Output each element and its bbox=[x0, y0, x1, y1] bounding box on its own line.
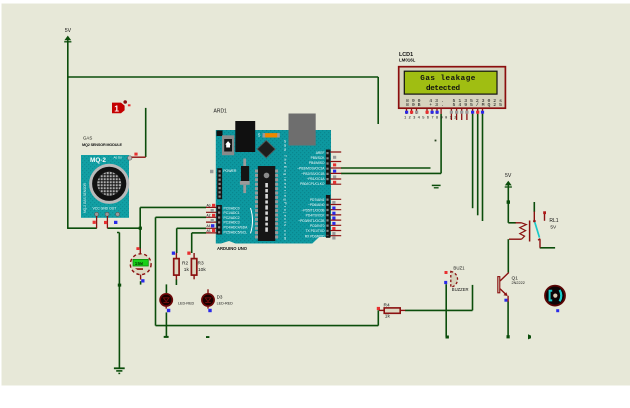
sensor mesh disk bbox=[97, 172, 121, 196]
coil bottom pin dark red bbox=[509, 238, 522, 240]
wire arduino pin dangling horizontal bbox=[341, 167, 431, 169]
wire arduino D pin to LCD E: horizontal bbox=[341, 172, 441, 174]
svg-text:15W: 15W bbox=[135, 261, 144, 267]
common pin stub bbox=[533, 212, 535, 221]
wire lamp bottom dangling stub bbox=[140, 281, 142, 284]
red pin marker above lamp bbox=[136, 247, 139, 250]
mini ground under LCD bbox=[432, 185, 441, 187]
wire vertical up to R4 left pin bbox=[377, 310, 379, 325]
svg-text:ARD1: ARD1 bbox=[214, 108, 228, 114]
sounder semicircle body bbox=[451, 271, 458, 287]
svg-text:MQ-2: MQ-2 bbox=[90, 157, 106, 164]
logic probe showing 1 bbox=[112, 100, 131, 113]
wire relay armature top stub bbox=[533, 202, 535, 212]
right header bottom bbox=[326, 195, 330, 238]
lamp body bbox=[130, 254, 151, 275]
svg-text:~PB2/SS/OC1B: ~PB2/SS/OC1B bbox=[301, 172, 325, 176]
svg-text:~PB3/MOSI/OC2A: ~PB3/MOSI/OC2A bbox=[297, 166, 325, 170]
power terminal 5V (relay side) bbox=[505, 173, 512, 189]
crystal diamond bbox=[257, 140, 275, 157]
wire net A4: vertical down to R2 bbox=[176, 228, 178, 253]
wire net A4: horizontal from arduino pin bbox=[177, 227, 206, 229]
wire LED1 anode stub bbox=[165, 284, 167, 293]
analog header bbox=[216, 205, 222, 235]
svg-text:PB4/MISO: PB4/MISO bbox=[309, 161, 325, 165]
arduino right pin stubs bbox=[330, 152, 341, 240]
wire net A5: vertical down to R3 bbox=[191, 233, 193, 253]
svg-text:BUZZER: BUZZER bbox=[452, 287, 469, 292]
base bar bbox=[498, 277, 500, 293]
svg-text:LED-RED: LED-RED bbox=[178, 302, 195, 306]
wire logic probe net vertical bbox=[145, 108, 147, 157]
svg-text:A2: A2 bbox=[207, 214, 211, 218]
reset button bbox=[217, 131, 223, 137]
svg-text:R4: R4 bbox=[384, 302, 390, 308]
svg-text:Gas leakage: Gas leakage bbox=[420, 75, 475, 83]
wire relay NO contact out bbox=[540, 247, 555, 249]
svg-text:RL1: RL1 bbox=[549, 218, 558, 224]
pin state squares bbox=[93, 221, 96, 224]
svg-text:PD4/T0/XCK: PD4/T0/XCK bbox=[306, 214, 326, 218]
wire from pad to probe net (dark red) bbox=[132, 156, 146, 158]
svg-text:~PD6/AIN0: ~PD6/AIN0 bbox=[308, 203, 325, 207]
svg-text:LM016L: LM016L bbox=[399, 58, 416, 63]
wire vertical dangling above R4 net bbox=[472, 285, 474, 311]
pin state squares bbox=[405, 111, 408, 114]
relay core bar bbox=[529, 221, 531, 242]
wire 5V to relay coil top bbox=[508, 222, 516, 224]
svg-text:www.TheEngineeringProjects.com: www.TheEngineeringProjects.com bbox=[283, 140, 287, 240]
left pin state squares bbox=[212, 204, 215, 207]
power terminal 5V (top-left) bbox=[64, 28, 71, 43]
LCD pins bbox=[404, 108, 484, 120]
orange smd bbox=[264, 133, 278, 137]
power jack bbox=[235, 121, 255, 152]
dangling end dot Q1 emitter column bbox=[507, 335, 510, 338]
usb connector bbox=[289, 114, 316, 146]
wire net A5: horizontal from arduino pin bbox=[192, 232, 206, 234]
red pin marker near pad bbox=[134, 153, 137, 156]
svg-text:PC5/ADC5/SCL: PC5/ADC5/SCL bbox=[224, 230, 248, 234]
svg-text:ARDUINO UNO: ARDUINO UNO bbox=[217, 246, 248, 251]
wire bottom horizontal to R4 bbox=[156, 325, 379, 327]
svg-text:~PD3/INT1/OC2B: ~PD3/INT1/OC2B bbox=[298, 219, 325, 223]
svg-text:R3: R3 bbox=[198, 261, 204, 267]
svg-text:PC2/ADC2: PC2/ADC2 bbox=[224, 216, 240, 220]
lamp green display bbox=[133, 259, 148, 266]
coil spring zigzag bbox=[520, 223, 527, 239]
wire LED1 cathode down bbox=[165, 312, 167, 336]
wire 5V right terminal drop bbox=[507, 188, 509, 223]
lamp top pin stub bbox=[139, 249, 141, 255]
svg-text:PB0/ICP1/CLKO: PB0/ICP1/CLKO bbox=[300, 182, 325, 186]
svg-text:1 2 3 4 5 6 7 8 9 0 1 2: 1 2 3 4 5 6 7 8 9 0 1 2 bbox=[404, 117, 457, 121]
smd regulator bbox=[243, 159, 246, 167]
stray gray pin square left bbox=[210, 170, 213, 173]
wire R2 bottom dangling stub bbox=[175, 279, 177, 285]
atmega chip bbox=[258, 166, 276, 241]
svg-text:5V: 5V bbox=[65, 28, 72, 34]
svg-text:detected: detected bbox=[426, 85, 460, 93]
power header bbox=[217, 168, 222, 199]
wire sounder low pin down vertical bbox=[445, 284, 447, 337]
svg-text:5V: 5V bbox=[505, 173, 512, 179]
svg-text:80B +3. 5495/MQ25: 80B +3. 5495/MQ25 bbox=[406, 102, 502, 108]
NC pin stub bbox=[544, 214, 546, 221]
svg-text:R2: R2 bbox=[182, 261, 188, 267]
svg-text:LED-RED: LED-RED bbox=[217, 302, 234, 306]
svg-text:MQ2 SENSOR MODULE: MQ2 SENSOR MODULE bbox=[82, 143, 122, 147]
svg-text:PC4/ADC4/SDA: PC4/ADC4/SDA bbox=[224, 226, 249, 230]
svg-text:TX PD1/TXD: TX PD1/TXD bbox=[305, 229, 325, 233]
svg-text:A5: A5 bbox=[207, 230, 211, 234]
svg-text:10k: 10k bbox=[198, 267, 206, 273]
arduino board bbox=[216, 130, 331, 244]
coil top pin dark red bbox=[516, 222, 522, 224]
pin stubs bbox=[407, 108, 483, 120]
stray dot under LCD bbox=[435, 140, 437, 142]
right pin state squares bbox=[333, 156, 336, 159]
svg-text:A4: A4 bbox=[207, 225, 211, 229]
resistor R4 bbox=[377, 302, 406, 319]
wire net A0: vertical from arduino A0 row down to lamp bbox=[139, 207, 141, 248]
dangling blob right of Q1 bbox=[528, 334, 531, 339]
svg-text:MQ-2 GAS SENSOR: MQ-2 GAS SENSOR bbox=[83, 182, 87, 213]
LCD screen bbox=[404, 71, 497, 94]
LED D1 bbox=[160, 293, 194, 312]
junction dot at MQ2 rail / lamp column bbox=[139, 227, 142, 230]
LCD bezel bbox=[399, 67, 506, 109]
mounting hole pad top-right bbox=[128, 156, 132, 160]
wire MQ2 pin row horizontal bbox=[67, 227, 141, 229]
wire LCD E vertical bbox=[440, 114, 442, 173]
emitter stroke with arrow bbox=[500, 289, 507, 296]
svg-text:A0 D0: A0 D0 bbox=[114, 156, 123, 160]
svg-text:BUZ1: BUZ1 bbox=[453, 265, 465, 270]
resistor R3 bbox=[187, 252, 206, 280]
svg-text:GAS: GAS bbox=[83, 136, 92, 141]
svg-text:~PB1/OC1A: ~PB1/OC1A bbox=[306, 177, 325, 181]
wire LCD D6 vertical dangling bbox=[482, 114, 484, 221]
lamp lower mark bbox=[135, 268, 143, 270]
wire LCD D5 vertical dangling bbox=[477, 114, 479, 215]
svg-text:PC0/ADC0: PC0/ADC0 bbox=[224, 206, 240, 210]
wire net A2: vertical down bbox=[155, 217, 157, 325]
svg-text:PC1/ADC1: PC1/ADC1 bbox=[224, 211, 240, 215]
LED D2 bbox=[202, 289, 233, 312]
dangling end dot LED1 cathode bbox=[164, 336, 169, 338]
module pins bbox=[95, 212, 99, 216]
moving contact (cyan) bbox=[535, 222, 540, 237]
dangling end dot sounder column bbox=[446, 336, 449, 339]
resistor R2 bbox=[172, 252, 190, 280]
Q1 collector wire green bbox=[507, 239, 509, 272]
arduino left pin stubs bbox=[206, 204, 216, 234]
blue state square lamp bottom bbox=[141, 279, 144, 282]
svg-text:D3: D3 bbox=[217, 295, 223, 300]
sensor outer silver ring bbox=[91, 165, 128, 202]
junction dot on 5V right drop bbox=[507, 200, 510, 203]
wire left rail down to MQ2 pin row bbox=[67, 77, 69, 228]
svg-text:RX PD0/RXD: RX PD0/RXD bbox=[305, 234, 325, 238]
emitter pin bbox=[507, 296, 509, 302]
wire net A2: horizontal from arduino A2 pin bbox=[156, 216, 207, 218]
pin stubs dark red bbox=[97, 216, 108, 228]
wire R4 right to sounder-column bbox=[405, 309, 473, 311]
svg-text:PB5/SCK: PB5/SCK bbox=[311, 156, 326, 160]
svg-text:PC3/ADC3: PC3/ADC3 bbox=[224, 221, 240, 225]
wire 5V rail drop right toward LCD bbox=[377, 77, 379, 124]
collector stroke bbox=[500, 273, 509, 282]
svg-text:1: 1 bbox=[114, 104, 119, 114]
lamp bottom pin stub bbox=[140, 275, 142, 280]
wire MQ2 OUT pin down to ground rail bbox=[117, 233, 119, 369]
wire 5V terminal drop (top-left) bbox=[67, 41, 69, 77]
MQ2 module board bbox=[81, 155, 129, 218]
voltage regulator bbox=[222, 135, 234, 155]
svg-text:~PD5/T1/OC0B: ~PD5/T1/OC0B bbox=[302, 208, 326, 212]
svg-text:5V: 5V bbox=[550, 224, 557, 230]
wire LCD D4 vertical dangling bbox=[472, 114, 474, 208]
wire Q1 emitter down bbox=[507, 302, 509, 337]
right header top bbox=[326, 150, 330, 185]
NO contact hook bbox=[538, 239, 540, 248]
wire net A0: horizontal to arduino A0 pin bbox=[140, 206, 206, 208]
svg-text:AREF: AREF bbox=[316, 151, 325, 155]
svg-text:2N2222: 2N2222 bbox=[512, 281, 525, 285]
svg-text:1k: 1k bbox=[385, 314, 391, 320]
dangling end dot LED2 cathode bbox=[206, 336, 209, 338]
svg-text:A0: A0 bbox=[207, 205, 211, 209]
svg-text:POWER: POWER bbox=[223, 169, 237, 173]
wire 5V rail horizontal top bbox=[67, 76, 378, 78]
svg-text:PD7/AIN1: PD7/AIN1 bbox=[310, 198, 325, 202]
svg-text:PD2/INT0: PD2/INT0 bbox=[310, 224, 325, 228]
svg-text:1k: 1k bbox=[184, 267, 190, 273]
junction dot on MQ2 OUT ground wire bbox=[118, 284, 121, 287]
svg-text:VCC GND OUT: VCC GND OUT bbox=[93, 207, 117, 211]
white bracket arc bbox=[251, 208, 253, 233]
ground symbol (bottom-left) bbox=[114, 368, 125, 373]
